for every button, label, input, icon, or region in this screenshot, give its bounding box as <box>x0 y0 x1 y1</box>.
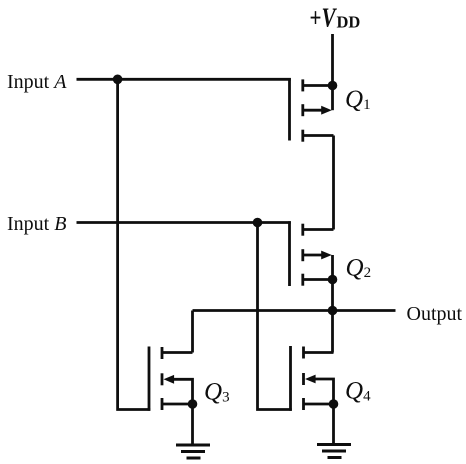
wire Q4 source to ground <box>332 404 335 445</box>
svg-text:DD: DD <box>337 12 361 31</box>
wire Input A junction down to Q3 gate <box>118 79 151 409</box>
transistor Q2 <box>290 221 334 286</box>
wire output branch down to Q3 drain <box>191 311 194 353</box>
transistor Q4 <box>291 346 334 411</box>
node: output junction <box>328 306 338 316</box>
wire Input B junction down to Q4 gate <box>258 223 292 410</box>
node: Input A junction <box>113 75 123 85</box>
svg-text:Q3: Q3 <box>204 379 230 406</box>
svg-text:Input B: Input B <box>7 213 66 235</box>
svg-text:Q4: Q4 <box>345 378 371 405</box>
wire Input B to Q2 gate <box>77 221 291 224</box>
node: Q1 source at VDD <box>328 81 338 91</box>
wire Q3 source to ground <box>191 404 194 445</box>
wire VDD down to Q1 <box>331 34 334 86</box>
svg-text:Output: Output <box>407 303 463 325</box>
node: Q3 source <box>188 399 198 409</box>
transistor Q1 <box>290 78 334 142</box>
transistor Q3 <box>149 347 193 411</box>
node: Q4 source <box>329 399 339 409</box>
node: Input B junction <box>253 218 263 228</box>
svg-text:Input A: Input A <box>7 71 67 93</box>
svg-text:+V: +V <box>310 3 338 33</box>
wire Input A to Q1 gate <box>77 78 291 81</box>
ground under Q3 <box>176 445 210 458</box>
svg-text:Q2: Q2 <box>346 255 372 282</box>
ground under Q4 <box>317 445 351 458</box>
svg-text:Q1: Q1 <box>345 86 371 113</box>
wire Q2 source down to Q4 drain <box>331 280 334 353</box>
wire Q1 drain to Q2 source <box>332 136 335 230</box>
wire output line <box>193 309 396 312</box>
node: Q2 source <box>328 275 338 285</box>
